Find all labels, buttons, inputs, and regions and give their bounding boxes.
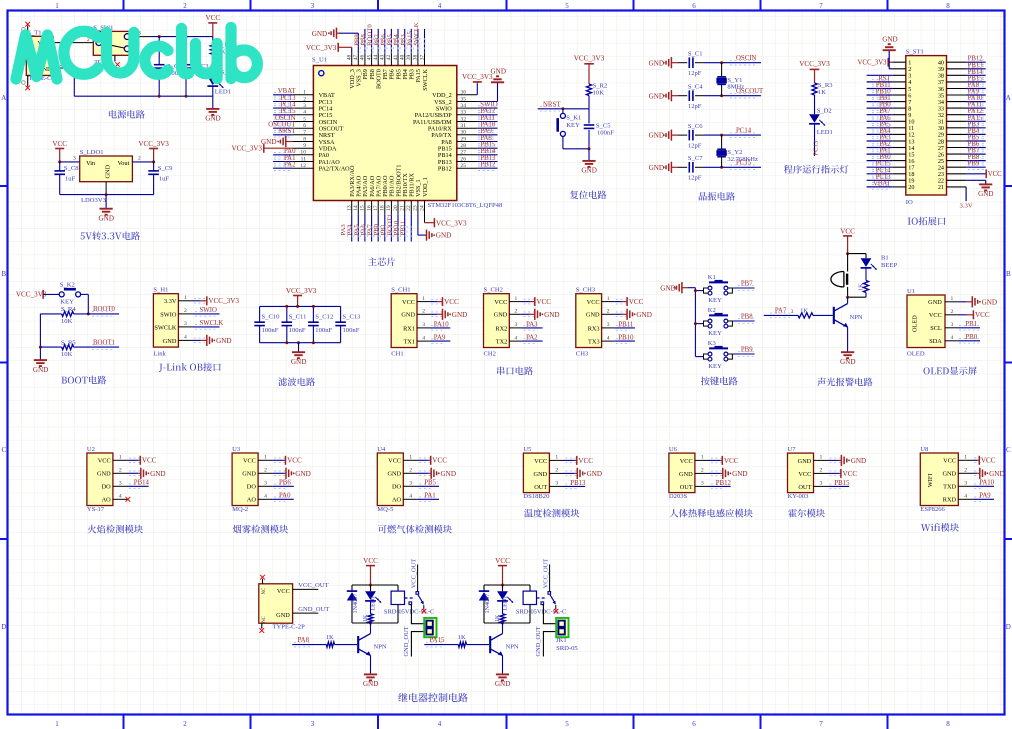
svg-text:S_C7: S_C7 xyxy=(688,155,703,162)
svg-text:DO: DO xyxy=(247,484,257,491)
svg-text:U2: U2 xyxy=(87,446,95,453)
svg-text:VCC: VCC xyxy=(981,457,996,465)
svg-text:LED1: LED1 xyxy=(215,89,231,96)
svg-text:4: 4 xyxy=(438,720,442,728)
svg-text:OUT: OUT xyxy=(680,484,693,491)
svg-text:GND: GND xyxy=(636,311,651,319)
svg-text:GND: GND xyxy=(732,470,747,478)
svg-text:GND: GND xyxy=(587,470,602,478)
svg-text:PA2: PA2 xyxy=(526,335,538,342)
svg-text:C: C xyxy=(1,446,6,454)
svg-text:S_H1: S_H1 xyxy=(153,287,168,294)
svg-text:PB12: PB12 xyxy=(438,166,452,173)
svg-text:2: 2 xyxy=(555,468,558,474)
svg-text:4: 4 xyxy=(951,335,954,341)
svg-text:GND: GND xyxy=(989,470,1004,478)
svg-text:4: 4 xyxy=(119,494,122,500)
svg-text:SDA: SDA xyxy=(929,338,942,345)
svg-text:WIFI: WIFI xyxy=(927,474,934,488)
svg-text:1K: 1K xyxy=(857,283,864,291)
svg-text:4: 4 xyxy=(422,335,425,341)
svg-text:VCC_3V3: VCC_3V3 xyxy=(306,44,337,52)
svg-text:TX2: TX2 xyxy=(496,339,508,346)
svg-text:VCC_3V3: VCC_3V3 xyxy=(231,145,262,153)
svg-text:SWCLK: SWCLK xyxy=(200,320,224,327)
svg-text:4: 4 xyxy=(438,2,442,10)
svg-text:1: 1 xyxy=(515,296,518,302)
svg-text:8MHz: 8MHz xyxy=(727,84,744,91)
svg-text:100nF: 100nF xyxy=(597,129,614,136)
svg-text:NRST: NRST xyxy=(543,102,561,109)
svg-text:U5: U5 xyxy=(523,446,532,453)
svg-text:GND: GND xyxy=(660,284,675,292)
svg-text:OUT: OUT xyxy=(534,484,547,491)
svg-text:1: 1 xyxy=(964,455,967,461)
svg-text:3: 3 xyxy=(311,720,315,728)
svg-text:D: D xyxy=(1,623,6,631)
svg-text:VCC: VCC xyxy=(494,299,507,306)
svg-text:PB11: PB11 xyxy=(400,221,407,236)
svg-text:NPN: NPN xyxy=(374,643,387,650)
svg-text:3: 3 xyxy=(311,2,315,10)
svg-text:BEEP: BEEP xyxy=(881,262,897,269)
svg-text:VDD_1: VDD_1 xyxy=(422,177,429,197)
svg-text:2: 2 xyxy=(183,720,187,728)
svg-text:PC13: PC13 xyxy=(813,140,820,156)
svg-text:2: 2 xyxy=(422,309,425,315)
svg-text:3: 3 xyxy=(119,481,122,487)
svg-text:KEY: KEY xyxy=(60,299,74,306)
svg-text:S_C9: S_C9 xyxy=(158,165,173,172)
svg-text:VCC_OUT: VCC_OUT xyxy=(542,559,549,589)
svg-text:GND: GND xyxy=(649,59,664,67)
svg-text:KY-003: KY-003 xyxy=(788,493,810,500)
svg-text:PB13: PB13 xyxy=(570,480,586,487)
svg-text:S_CH1: S_CH1 xyxy=(391,287,410,294)
svg-text:PA9: PA9 xyxy=(434,335,446,342)
svg-text:K3: K3 xyxy=(708,340,717,347)
svg-text:VCC: VCC xyxy=(578,457,593,465)
svg-text:GND: GND xyxy=(494,312,508,319)
svg-text:GND: GND xyxy=(163,338,177,345)
svg-text:SWCLK: SWCLK xyxy=(422,69,429,91)
svg-text:1: 1 xyxy=(422,296,425,302)
svg-text:S_C6: S_C6 xyxy=(688,123,703,130)
svg-text:2: 2 xyxy=(264,468,267,474)
svg-text:S_C4: S_C4 xyxy=(688,84,703,91)
svg-text:12pF: 12pF xyxy=(688,143,702,150)
svg-text:4: 4 xyxy=(184,335,187,341)
svg-text:VCC: VCC xyxy=(495,557,510,565)
svg-text:12pF: 12pF xyxy=(688,103,702,110)
svg-text:S_C8: S_C8 xyxy=(64,165,79,172)
svg-text:2: 2 xyxy=(951,309,954,315)
svg-text:GND: GND xyxy=(649,132,664,140)
svg-text:1: 1 xyxy=(555,455,558,461)
svg-text:GND: GND xyxy=(882,36,897,44)
svg-text:K2: K2 xyxy=(708,307,716,314)
svg-text:GND: GND xyxy=(544,311,559,319)
svg-text:2: 2 xyxy=(119,468,122,474)
svg-text:VCC: VCC xyxy=(843,470,858,478)
svg-text:VCC: VCC xyxy=(205,14,220,22)
svg-text:S_CH3: S_CH3 xyxy=(576,287,596,294)
svg-text:4: 4 xyxy=(607,335,610,341)
svg-text:GND: GND xyxy=(534,471,548,478)
svg-text:VCC_OUT: VCC_OUT xyxy=(298,582,328,589)
svg-text:TXD: TXD xyxy=(943,484,956,491)
svg-text:NC: NC xyxy=(262,616,267,623)
svg-text:GND: GND xyxy=(491,68,506,76)
svg-text:GND: GND xyxy=(295,470,310,478)
svg-text:3: 3 xyxy=(422,322,425,328)
svg-text:1: 1 xyxy=(951,296,954,302)
svg-text:PA2/TX/AO: PA2/TX/AO xyxy=(319,166,351,173)
svg-text:GND: GND xyxy=(942,471,956,478)
svg-text:1K: 1K xyxy=(326,634,334,641)
svg-text:VCC: VCC xyxy=(363,557,378,565)
svg-text:S_C13: S_C13 xyxy=(343,314,362,321)
svg-text:NRST: NRST xyxy=(278,128,296,135)
svg-text:LED1: LED1 xyxy=(503,596,509,611)
svg-text:S_C12: S_C12 xyxy=(315,314,333,321)
svg-text:RX3: RX3 xyxy=(588,325,600,332)
svg-text:NC: NC xyxy=(262,588,267,595)
svg-text:3: 3 xyxy=(409,481,412,487)
svg-text:1: 1 xyxy=(55,2,59,10)
svg-text:S_K1: S_K1 xyxy=(566,114,581,121)
svg-text:1N4007: 1N4007 xyxy=(484,594,491,614)
svg-text:1: 1 xyxy=(701,455,704,461)
svg-text:GND: GND xyxy=(401,312,415,319)
svg-text:SRD-05: SRD-05 xyxy=(556,645,578,652)
svg-text:2: 2 xyxy=(607,309,610,315)
svg-text:GND: GND xyxy=(586,312,600,319)
svg-text:GND_OUT: GND_OUT xyxy=(535,626,542,656)
svg-text:4: 4 xyxy=(964,494,967,500)
svg-text:GND: GND xyxy=(840,358,855,366)
svg-text:PB7: PB7 xyxy=(741,281,753,288)
svg-text:GND: GND xyxy=(982,298,997,306)
svg-text:VCC: VCC xyxy=(680,458,693,465)
svg-text:1K: 1K xyxy=(362,614,369,622)
svg-text:VCC: VCC xyxy=(277,588,290,595)
svg-text:GND: GND xyxy=(312,30,327,38)
svg-text:PA15: PA15 xyxy=(430,637,445,644)
svg-text:PB6: PB6 xyxy=(279,480,291,487)
svg-text:GND: GND xyxy=(363,680,378,688)
svg-text:B: B xyxy=(1006,270,1011,278)
svg-text:S_K2: S_K2 xyxy=(60,281,75,288)
svg-text:PA10: PA10 xyxy=(434,321,449,328)
svg-text:1: 1 xyxy=(607,296,610,302)
svg-text:PB11: PB11 xyxy=(618,321,633,328)
svg-text:10K: 10K xyxy=(593,89,605,96)
svg-text:PB9: PB9 xyxy=(968,161,980,168)
svg-text:VCC: VCC xyxy=(929,312,942,319)
svg-text:GND: GND xyxy=(649,92,664,100)
svg-text:GND: GND xyxy=(216,337,231,345)
svg-text:1N4007: 1N4007 xyxy=(352,594,359,614)
svg-text:TYPE-C-2P: TYPE-C-2P xyxy=(273,624,306,631)
svg-text:GND_OUT: GND_OUT xyxy=(298,606,329,613)
svg-text:SCL: SCL xyxy=(930,325,942,332)
svg-text:GND: GND xyxy=(495,680,510,688)
svg-text:B1: B1 xyxy=(881,255,889,262)
svg-text:100nF: 100nF xyxy=(262,327,279,334)
svg-text:7: 7 xyxy=(819,2,823,10)
svg-text:GND: GND xyxy=(242,471,256,478)
svg-text:VCC: VCC xyxy=(388,458,401,465)
svg-text:RXD: RXD xyxy=(943,497,957,504)
svg-text:SRD-05VDC-SL-C: SRD-05VDC-SL-C xyxy=(516,609,566,616)
svg-text:SWCLK: SWCLK xyxy=(154,324,176,331)
svg-text:VCC: VCC xyxy=(52,140,67,148)
svg-text:OLED: OLED xyxy=(911,315,918,332)
svg-text:PA3: PA3 xyxy=(526,321,538,328)
svg-text:2: 2 xyxy=(184,308,187,314)
svg-text:PA0: PA0 xyxy=(279,493,291,500)
svg-text:STM32F103C8T6_LQFP48: STM32F103C8T6_LQFP48 xyxy=(428,202,503,209)
svg-text:3: 3 xyxy=(964,481,967,487)
svg-text:NPN: NPN xyxy=(506,643,519,650)
svg-text:LED1: LED1 xyxy=(817,129,833,136)
svg-text:VCC: VCC xyxy=(534,458,547,465)
svg-text:3: 3 xyxy=(73,156,76,162)
svg-text:1: 1 xyxy=(409,455,412,461)
svg-text:PB9: PB9 xyxy=(741,347,753,354)
svg-text:VCC_3V3: VCC_3V3 xyxy=(138,140,169,148)
svg-text:100nF: 100nF xyxy=(289,327,306,334)
svg-text:4: 4 xyxy=(409,494,412,500)
svg-text:AO: AO xyxy=(247,497,257,504)
svg-text:VCC: VCC xyxy=(402,299,415,306)
svg-text:GND: GND xyxy=(33,366,48,374)
svg-text:5: 5 xyxy=(565,2,569,10)
svg-text:100nF: 100nF xyxy=(315,327,332,334)
svg-text:1K: 1K xyxy=(458,634,466,641)
svg-text:VCC: VCC xyxy=(142,457,157,465)
svg-text:GND: GND xyxy=(99,214,114,222)
svg-text:PA1: PA1 xyxy=(424,493,435,500)
svg-text:GND: GND xyxy=(205,115,220,123)
svg-text:U7: U7 xyxy=(788,446,797,453)
svg-text:VCC_3V3: VCC_3V3 xyxy=(858,60,888,67)
svg-text:D203S: D203S xyxy=(669,493,688,500)
svg-text:K1: K1 xyxy=(708,274,716,281)
svg-text:PA10: PA10 xyxy=(979,480,994,487)
svg-text:1K: 1K xyxy=(818,89,826,96)
svg-text:DO: DO xyxy=(392,484,402,491)
svg-text:GND: GND xyxy=(679,471,693,478)
svg-text:VCC: VCC xyxy=(287,457,302,465)
svg-text:PB12: PB12 xyxy=(480,162,496,169)
svg-text:VCC: VCC xyxy=(943,458,956,465)
svg-text:NPN: NPN xyxy=(850,314,863,321)
svg-text:100nF: 100nF xyxy=(343,327,360,334)
svg-text:PB10: PB10 xyxy=(618,335,634,342)
svg-text:S_R3: S_R3 xyxy=(818,82,833,89)
svg-text:Vout: Vout xyxy=(118,160,130,167)
svg-text:6: 6 xyxy=(692,720,696,728)
svg-text:PB12: PB12 xyxy=(716,480,732,487)
svg-text:GND: GND xyxy=(291,358,306,366)
svg-text:OUT: OUT xyxy=(798,484,811,491)
svg-text:3: 3 xyxy=(184,321,187,327)
svg-text:VCC_3V3: VCC_3V3 xyxy=(286,287,317,295)
svg-text:C: C xyxy=(1006,446,1011,454)
svg-text:CH3: CH3 xyxy=(576,350,589,357)
svg-text:S_ST1: S_ST1 xyxy=(906,48,924,55)
svg-text:GND: GND xyxy=(387,471,401,478)
svg-text:VCC_3V3: VCC_3V3 xyxy=(574,55,605,63)
svg-text:8: 8 xyxy=(946,720,950,728)
svg-text:VCC_3V3: VCC_3V3 xyxy=(436,219,467,227)
svg-text:PA9: PA9 xyxy=(979,493,991,500)
svg-text:PA7: PA7 xyxy=(775,308,787,315)
svg-text:ESP8266: ESP8266 xyxy=(920,506,945,513)
svg-text:3: 3 xyxy=(951,322,954,328)
svg-text:S_C11: S_C11 xyxy=(289,314,307,321)
svg-text:VCC: VCC xyxy=(988,171,1002,178)
svg-text:VCC: VCC xyxy=(629,298,644,306)
svg-text:2: 2 xyxy=(183,2,187,10)
svg-text:VCC: VCC xyxy=(724,457,739,465)
svg-text:1: 1 xyxy=(820,455,823,461)
svg-text:LED1: LED1 xyxy=(371,596,377,611)
svg-text:U4: U4 xyxy=(377,446,386,453)
svg-text:3: 3 xyxy=(791,309,794,315)
svg-text:8: 8 xyxy=(946,2,950,10)
svg-text:4: 4 xyxy=(515,335,518,341)
svg-text:D: D xyxy=(1006,623,1011,631)
svg-text:3: 3 xyxy=(820,481,823,487)
svg-text:KEY: KEY xyxy=(708,330,722,337)
svg-text:5: 5 xyxy=(565,720,569,728)
svg-text:1: 1 xyxy=(55,720,59,728)
svg-text:2: 2 xyxy=(138,156,141,162)
svg-text:2: 2 xyxy=(964,468,967,474)
svg-text:VCC: VCC xyxy=(98,458,111,465)
svg-text:U3: U3 xyxy=(232,446,241,453)
svg-text:RX1: RX1 xyxy=(403,325,415,332)
svg-text:S_R2: S_R2 xyxy=(593,82,608,89)
svg-text:1K: 1K xyxy=(494,614,501,622)
svg-text:3: 3 xyxy=(701,481,704,487)
svg-text:VCC_3V3: VCC_3V3 xyxy=(16,291,47,299)
svg-text:S_R4: S_R4 xyxy=(61,306,76,313)
svg-text:KEY: KEY xyxy=(708,297,722,304)
svg-text:VCC: VCC xyxy=(975,311,990,319)
svg-text:7: 7 xyxy=(819,720,823,728)
svg-text:12pF: 12pF xyxy=(688,70,702,77)
svg-text:32.768KHz: 32.768KHz xyxy=(727,156,758,163)
svg-text:VCC_OUT: VCC_OUT xyxy=(410,559,417,589)
svg-text:VBAT: VBAT xyxy=(873,180,892,187)
svg-text:BOOT0: BOOT0 xyxy=(93,306,116,313)
svg-text:SRD-05VDC-SL-C: SRD-05VDC-SL-C xyxy=(384,609,434,616)
svg-text:GND: GND xyxy=(581,167,596,175)
svg-text:PB1: PB1 xyxy=(965,321,977,328)
svg-text:VCC: VCC xyxy=(798,471,811,478)
svg-text:12pF: 12pF xyxy=(688,175,702,182)
svg-text:PB15: PB15 xyxy=(834,480,850,487)
svg-text:SWCLK: SWCLK xyxy=(413,22,420,46)
svg-text:2: 2 xyxy=(820,468,823,474)
svg-text:VCC_3V3: VCC_3V3 xyxy=(462,73,493,81)
svg-text:CH2: CH2 xyxy=(484,350,496,357)
svg-text:A: A xyxy=(1,94,6,102)
svg-text:GND: GND xyxy=(452,311,467,319)
svg-text:S_LDO1: S_LDO1 xyxy=(80,149,104,156)
svg-text:2: 2 xyxy=(515,309,518,315)
svg-text:U8: U8 xyxy=(920,446,929,453)
svg-text:S_C5: S_C5 xyxy=(596,122,611,129)
svg-text:KEY: KEY xyxy=(708,363,722,370)
svg-text:GND: GND xyxy=(105,164,112,178)
svg-text:VCC: VCC xyxy=(840,228,855,236)
svg-text:VCC: VCC xyxy=(587,299,600,306)
svg-text:S_R5: S_R5 xyxy=(61,339,76,346)
svg-text:6: 6 xyxy=(692,2,696,10)
svg-text:1uF: 1uF xyxy=(65,175,76,182)
svg-text:MQ-2: MQ-2 xyxy=(232,506,248,513)
svg-text:S_C1: S_C1 xyxy=(688,51,703,58)
svg-text:1K: 1K xyxy=(800,308,808,315)
svg-text:S_U1: S_U1 xyxy=(312,57,327,64)
svg-text:U6: U6 xyxy=(669,446,678,453)
svg-text:KEY: KEY xyxy=(566,122,580,129)
svg-text:YS-17: YS-17 xyxy=(87,506,105,513)
svg-text:VCC_3V3: VCC_3V3 xyxy=(799,60,830,68)
svg-text:JK1: JK1 xyxy=(556,637,567,644)
svg-text:21: 21 xyxy=(938,184,944,191)
svg-text:3: 3 xyxy=(607,322,610,328)
svg-text:GND: GND xyxy=(97,471,111,478)
svg-text:10K: 10K xyxy=(61,318,73,325)
svg-text:B: B xyxy=(1,270,6,278)
svg-text:MQ-5: MQ-5 xyxy=(377,506,394,513)
svg-text:IO: IO xyxy=(906,199,913,206)
svg-text:GND: GND xyxy=(798,458,812,465)
svg-text:VCC: VCC xyxy=(444,298,459,306)
svg-text:U1: U1 xyxy=(907,288,915,295)
svg-text:2: 2 xyxy=(409,468,412,474)
svg-text:PA8: PA8 xyxy=(298,637,310,644)
svg-text:1uF: 1uF xyxy=(159,175,170,182)
svg-text:A: A xyxy=(1006,94,1011,102)
svg-text:VCC: VCC xyxy=(536,298,551,306)
svg-text:BOOT1: BOOT1 xyxy=(93,339,115,346)
svg-text:Vin: Vin xyxy=(86,160,96,167)
svg-text:S_C10: S_C10 xyxy=(262,314,281,321)
svg-text:VCC_3V3: VCC_3V3 xyxy=(208,297,239,305)
svg-text:DS18B20: DS18B20 xyxy=(523,493,550,500)
svg-text:RX2: RX2 xyxy=(495,325,507,332)
svg-text:GND_OUT: GND_OUT xyxy=(403,626,410,656)
svg-text:VCC: VCC xyxy=(432,457,447,465)
svg-text:LDO3V3: LDO3V3 xyxy=(81,197,107,204)
svg-text:TX3: TX3 xyxy=(588,339,600,346)
svg-text:PB5: PB5 xyxy=(424,480,436,487)
svg-text:AO: AO xyxy=(392,497,402,504)
svg-text:GND: GND xyxy=(649,164,664,172)
svg-text:GND: GND xyxy=(928,299,942,306)
svg-text:3: 3 xyxy=(515,322,518,328)
svg-text:20: 20 xyxy=(908,184,914,191)
svg-text:SWIO: SWIO xyxy=(160,311,177,318)
svg-text:S_D2: S_D2 xyxy=(817,107,832,114)
